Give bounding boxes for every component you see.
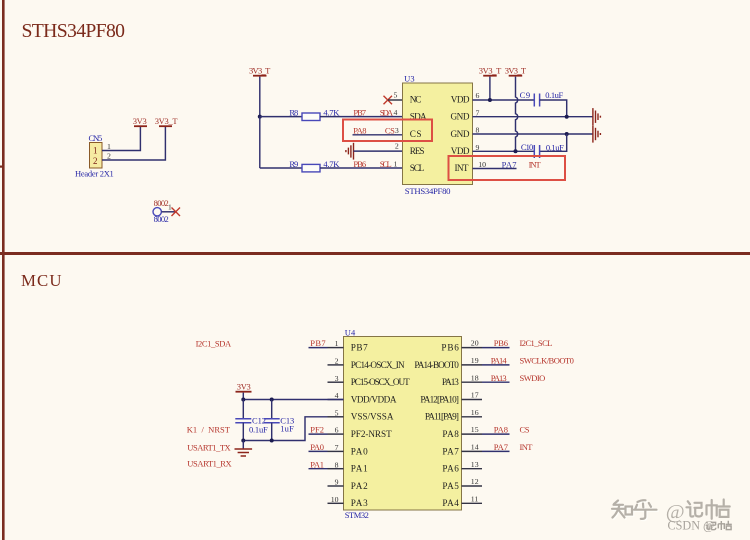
svg-text:1: 1	[93, 146, 98, 156]
svg-text:10: 10	[478, 160, 486, 169]
svg-text:1uF: 1uF	[280, 424, 294, 434]
svg-text:STHS34PF80: STHS34PF80	[22, 20, 126, 42]
right pin names	[414, 343, 459, 509]
no-connect X on NC	[384, 96, 393, 105]
wire CN5 pin2	[102, 127, 165, 160]
wire rail down	[259, 117, 261, 168]
svg-text:GND: GND	[451, 112, 470, 122]
svg-text:PB7: PB7	[353, 107, 366, 117]
svg-text:PA0: PA0	[310, 442, 324, 452]
svg-text:PA13: PA13	[491, 373, 507, 383]
power port 3V3_T	[155, 116, 179, 127]
svg-text:PA4: PA4	[442, 498, 459, 508]
svg-text:PB6: PB6	[494, 338, 508, 348]
svg-text:PF2: PF2	[310, 425, 324, 435]
junction	[488, 98, 492, 102]
svg-text:PA1: PA1	[351, 464, 368, 474]
svg-text:VDD: VDD	[451, 146, 470, 156]
svg-text:3V3_T: 3V3_T	[479, 65, 502, 75]
wire C10 to gnd rail	[540, 134, 567, 151]
svg-text:SWDIO: SWDIO	[520, 373, 546, 383]
svg-text:I2C1_SDA: I2C1_SDA	[196, 338, 232, 348]
svg-text:1: 1	[168, 203, 172, 212]
svg-text:0.1uF: 0.1uF	[546, 143, 564, 153]
net label PA8 (pin15)	[482, 433, 510, 435]
connector CN5 body	[90, 143, 103, 169]
power port 3V3	[236, 381, 252, 399]
capacitor C12	[235, 400, 268, 441]
wire VDD pin9	[473, 150, 535, 152]
svg-text:5: 5	[335, 408, 339, 417]
svg-text:16: 16	[471, 408, 479, 417]
svg-text:PC15-OSCX_OUT: PC15-OSCX_OUT	[351, 377, 410, 387]
svg-text:I2C1_SCL: I2C1_SCL	[520, 338, 553, 348]
svg-text:5: 5	[394, 91, 398, 100]
testpoint 8002 pad	[153, 208, 161, 216]
svg-text:3V3_T: 3V3_T	[155, 116, 179, 126]
svg-text:C9: C9	[520, 90, 531, 100]
svg-text:3V3: 3V3	[133, 116, 147, 126]
svg-text:PA0: PA0	[351, 446, 368, 456]
svg-text:8: 8	[335, 460, 339, 469]
svg-text:PA2: PA2	[351, 481, 368, 491]
svg-text:17: 17	[471, 391, 479, 400]
svg-text:0.1uF: 0.1uF	[545, 90, 563, 100]
svg-text:PA5: PA5	[442, 481, 459, 491]
svg-text:7: 7	[335, 443, 339, 452]
svg-text:PA8: PA8	[494, 425, 508, 435]
svg-text:4.7K: 4.7K	[323, 159, 340, 169]
wire VDD pin6	[473, 99, 535, 101]
section divider	[0, 252, 750, 255]
svg-text:C10: C10	[521, 142, 533, 152]
net label PB6 (pin20)	[482, 347, 510, 349]
hanzi tie	[707, 500, 730, 519]
svg-text:PA1: PA1	[310, 459, 324, 469]
svg-text:1: 1	[107, 142, 111, 151]
junction	[258, 115, 262, 119]
right pin stubs	[462, 348, 483, 504]
svg-text:PA6: PA6	[442, 464, 459, 474]
svg-text:4: 4	[335, 391, 339, 400]
svg-text:10: 10	[331, 495, 339, 504]
svg-text:0.1uF: 0.1uF	[249, 424, 268, 434]
svg-text:VDD: VDD	[451, 94, 470, 104]
svg-text:VSS/VSSA: VSS/VSSA	[351, 412, 394, 422]
wire GND pin8	[473, 133, 593, 135]
svg-text:2: 2	[335, 357, 339, 366]
ground GND	[235, 441, 253, 457]
svg-text:8002: 8002	[154, 198, 169, 208]
svg-text:PA7: PA7	[502, 159, 517, 169]
svg-text:SCL: SCL	[380, 159, 392, 169]
svg-text:3V3: 3V3	[237, 381, 251, 391]
wire CN5 pin1	[102, 127, 140, 151]
svg-text:U3: U3	[404, 73, 415, 83]
svg-text:MCU: MCU	[21, 271, 62, 290]
left pin names	[351, 343, 410, 509]
svg-text:INT: INT	[455, 163, 469, 173]
earth ground pin8	[593, 125, 601, 142]
highlight box CS	[343, 120, 432, 142]
junction	[565, 115, 569, 119]
capacitor C10	[521, 142, 564, 158]
svg-text:CN5: CN5	[89, 133, 103, 143]
svg-text:6: 6	[335, 426, 339, 435]
svg-text:8002: 8002	[154, 214, 169, 224]
hanzi ji	[687, 501, 703, 516]
svg-text:20: 20	[471, 339, 479, 348]
svg-text:2: 2	[107, 152, 111, 161]
junction	[270, 439, 274, 443]
border tick	[0, 166, 3, 168]
svg-text:STHS34PF80: STHS34PF80	[405, 186, 451, 196]
resistor R9	[260, 159, 403, 172]
svg-text:CS: CS	[385, 126, 395, 136]
svg-text:1: 1	[335, 339, 339, 348]
net label PA0 (pin7)	[309, 450, 328, 452]
svg-text:PB6: PB6	[441, 343, 459, 353]
svg-text:U4: U4	[345, 327, 356, 337]
net label PA14 (pin19)	[482, 364, 510, 366]
net label PB7 (pin1)	[309, 347, 328, 349]
junction	[241, 398, 245, 402]
resistor R8	[260, 108, 403, 121]
svg-text:INT: INT	[529, 159, 542, 169]
svg-text:STM32: STM32	[345, 510, 369, 520]
svg-text:3V3_T: 3V3_T	[505, 65, 527, 75]
svg-text:PA13: PA13	[442, 377, 459, 387]
svg-text:3: 3	[395, 126, 399, 135]
net label PA13 (pin18)	[482, 381, 510, 383]
no-connect X	[172, 208, 181, 217]
wire NC stub	[388, 99, 403, 101]
IC U4 body	[344, 337, 462, 511]
svg-text:PA14: PA14	[491, 356, 508, 366]
svg-text:1: 1	[394, 159, 398, 168]
svg-text:PF2-NRST: PF2-NRST	[351, 429, 392, 439]
wire INT pin10	[473, 168, 517, 170]
power port 3V3_T (VDD pin6)	[479, 65, 502, 100]
svg-text:PB7: PB7	[310, 338, 325, 348]
wire RES	[354, 150, 403, 152]
wire GND pin7	[473, 116, 593, 118]
svg-text:GND: GND	[451, 129, 470, 139]
power port 3V3	[133, 116, 147, 127]
svg-text:2: 2	[93, 156, 98, 166]
svg-text:USART1_RX: USART1_RX	[187, 459, 231, 469]
svg-text:6: 6	[476, 91, 480, 100]
svg-text:4: 4	[394, 108, 398, 117]
svg-text:Header 2X1: Header 2X1	[75, 169, 114, 179]
svg-text:4.7K: 4.7K	[323, 108, 340, 118]
highlight box INT	[449, 156, 566, 180]
hanzi hu	[634, 500, 657, 519]
left pin stubs	[328, 348, 344, 504]
svg-text:PA12[PA10]: PA12[PA10]	[420, 394, 459, 404]
svg-text:3: 3	[335, 374, 339, 383]
svg-text:12: 12	[471, 477, 479, 486]
power port 3V3_T (VDD pin9 rail)	[505, 65, 527, 151]
svg-text:2: 2	[395, 141, 399, 150]
svg-text:NC: NC	[410, 94, 422, 104]
svg-text:PC14-OSCX_IN: PC14-OSCX_IN	[351, 360, 405, 370]
svg-text:SCL: SCL	[410, 163, 425, 173]
svg-text:PA8: PA8	[353, 126, 366, 136]
wire C9 to gnd rail	[540, 100, 567, 117]
svg-text:9: 9	[476, 143, 480, 152]
net label PA1 (pin8)	[309, 468, 328, 470]
capacitor C13	[264, 400, 295, 441]
svg-text:INT: INT	[520, 442, 534, 452]
svg-text:RES: RES	[410, 146, 425, 156]
IC U3 body	[403, 83, 473, 185]
net label PA7 (pin14)	[482, 450, 510, 452]
right pin numbers	[471, 339, 479, 504]
junction	[565, 132, 569, 136]
svg-text:PB7: PB7	[351, 343, 368, 353]
svg-text:18: 18	[471, 373, 479, 382]
svg-text:K1 / NRST: K1 / NRST	[187, 425, 231, 435]
svg-text:SDA: SDA	[380, 107, 394, 117]
hanzi zhi	[612, 501, 625, 518]
junction	[241, 439, 245, 443]
svg-text:CS: CS	[410, 129, 422, 139]
net label PF2 (pin6)	[309, 433, 328, 435]
svg-text:PB6: PB6	[353, 159, 366, 169]
svg-text:VDD/VDDA: VDD/VDDA	[351, 394, 397, 404]
svg-text:SWCLK/BOOT0: SWCLK/BOOT0	[520, 356, 574, 366]
ground RES (sideways earth)	[346, 143, 354, 160]
wire 8002	[162, 211, 177, 213]
svg-text:13: 13	[471, 460, 479, 469]
svg-text:9: 9	[335, 478, 339, 487]
earth ground pin7	[593, 108, 601, 125]
junction	[270, 398, 274, 402]
svg-text:14: 14	[471, 443, 479, 452]
junction	[514, 149, 518, 153]
svg-text:USART1_TX: USART1_TX	[187, 443, 230, 453]
wire gnd bus	[243, 417, 327, 441]
svg-text:PA7: PA7	[442, 446, 459, 456]
svg-text:8: 8	[476, 126, 480, 135]
left pin numbers	[331, 339, 339, 504]
svg-text:PA14-BOOT0: PA14-BOOT0	[414, 360, 459, 370]
small ji	[706, 522, 716, 530]
power port 3V3_T rail	[249, 65, 271, 116]
wire VDD pin4	[243, 399, 343, 401]
svg-text:PA8: PA8	[442, 429, 459, 439]
sheet left border	[2, 0, 5, 540]
svg-text:11: 11	[471, 494, 479, 503]
svg-text:PA11[PA9]: PA11[PA9]	[425, 412, 459, 422]
capacitor C9	[520, 90, 564, 106]
svg-text:19: 19	[471, 356, 479, 365]
svg-text:3V3_T: 3V3_T	[249, 65, 271, 75]
svg-text:PA7: PA7	[494, 442, 508, 452]
svg-text:PA3: PA3	[351, 498, 368, 508]
svg-text:15: 15	[471, 425, 479, 434]
svg-text:CS: CS	[520, 425, 530, 435]
wire CS	[353, 134, 403, 136]
small tie	[718, 521, 732, 530]
watermark zhihu @jitie	[612, 500, 732, 533]
